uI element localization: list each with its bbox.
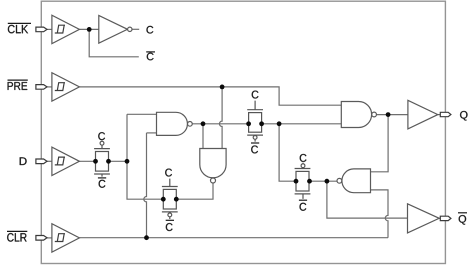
wire Q buffer to Q pin: [438, 114, 444, 116]
label C of TG3: [252, 91, 259, 99]
node CLR tee: [144, 235, 149, 240]
wire node to Cbar label: [89, 29, 139, 56]
label Cbar of TG3: [251, 143, 259, 153]
pin Q: [440, 112, 451, 116]
wire N1 out to TG3 left: [192, 123, 248, 125]
label C of TG2: [165, 169, 172, 177]
transmission gate TG1 (D input): [94, 141, 110, 177]
transmission gate TG3 (slave input): [247, 101, 263, 142]
schmitt buffer U4 (D): [52, 147, 80, 175]
pin D: [36, 159, 47, 164]
wire U4 out to TG1: [79, 160, 95, 162]
wire PRE pin to U3: [47, 86, 52, 88]
label Cbar (clock complement): [146, 52, 155, 60]
label Cbar of TG1: [98, 178, 106, 188]
wire PRE net to N5 top input: [79, 87, 341, 105]
node TG3 left terminal: [246, 121, 251, 126]
inverter U2 (CLK): [99, 15, 132, 43]
wire N5 out to Q buffer: [377, 114, 408, 116]
node TG4 left terminal: [294, 179, 299, 184]
wire TG4 right to N3 out: [310, 180, 337, 182]
wire TG1 to node D: [109, 160, 128, 162]
wire CLK pin to U1: [47, 28, 52, 30]
label Cbar of TG2: [166, 220, 174, 231]
label PRE: [8, 80, 28, 90]
schmitt buffer U1 (CLK): [52, 15, 80, 43]
node Q tee: [386, 112, 391, 117]
nand gate N5 (slave output): [341, 102, 376, 128]
node TG2 left terminal: [161, 197, 166, 202]
pin Qbar: [440, 216, 451, 220]
label C of TG4: [300, 154, 307, 162]
nand gate N2 (master feedback, down-pointing): [200, 149, 226, 184]
node N1 output tee: [201, 121, 206, 126]
node slave input tee: [277, 121, 282, 126]
pin CLK: [36, 27, 47, 32]
schmitt buffer U5 (CLR): [52, 224, 80, 252]
node CLK buffer out: [87, 27, 92, 32]
pin CLR: [36, 236, 47, 241]
label Cbar of TG4: [299, 200, 307, 211]
node TG2 right terminal: [174, 197, 179, 202]
wire D pin to U4: [47, 160, 52, 162]
label CLR: [7, 231, 27, 241]
wire N1 out tee down to N2 left input: [202, 124, 204, 149]
output buffer Qbar: [408, 204, 440, 233]
label C of TG1: [98, 132, 105, 140]
wire TG3 right to N5 bottom input: [262, 123, 342, 125]
node TG1 left terminal: [93, 159, 98, 164]
label D: [20, 157, 27, 165]
wire Qbar buffer to Qbar pin: [439, 217, 444, 219]
pin PRE: [36, 85, 47, 90]
wire CLR vertical with hop: [144, 133, 147, 238]
schmitt buffer U3 (PRE): [52, 73, 80, 101]
nand gate N1 (master output): [157, 112, 193, 135]
wire node D down to TG2 left: [127, 114, 163, 199]
wire CLR to N3 bottom input with hop: [371, 190, 389, 238]
nand gate N3 (slave feedback, left-pointing): [337, 169, 371, 193]
wire N2 out to TG2 right: [176, 183, 213, 199]
node PRE tee: [220, 85, 225, 90]
label CLK: [8, 23, 31, 33]
transmission gate TG2 (master feedback): [162, 179, 178, 219]
wire CLR branch to N1 bottom input: [147, 132, 157, 134]
wire CLR net: [79, 237, 388, 239]
label Q: [460, 111, 467, 121]
node TG1 right terminal: [106, 159, 111, 164]
wire slave tee down to TG4 left: [279, 124, 296, 181]
wire node D to N1 top input: [127, 113, 157, 115]
node TG4 right terminal: [307, 179, 312, 184]
wire U2 out to C label: [132, 28, 139, 30]
wire N3 out down to Qbar buffer: [327, 181, 408, 218]
label C (clock true): [147, 26, 154, 34]
wire CLR pin to U5: [47, 237, 52, 239]
label Qbar: [458, 213, 467, 225]
wire Q feedback to N3 top input: [371, 115, 389, 172]
wire U1 out to U2: [79, 28, 98, 30]
transmission gate TG4 (slave feedback): [295, 163, 311, 199]
output buffer Q: [408, 100, 438, 129]
node N3 output tee: [325, 179, 330, 184]
wire PRE tee down to N2 with hop: [219, 87, 222, 149]
node TG3 right terminal: [259, 121, 264, 126]
node D tee: [125, 159, 130, 164]
